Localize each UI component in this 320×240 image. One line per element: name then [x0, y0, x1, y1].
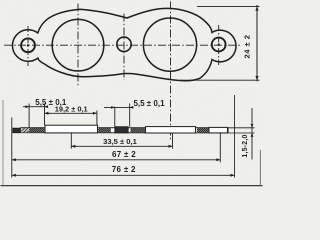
vertical center line, left mounting hole: [27, 26, 29, 66]
dimension 5,5±0,1 left: dimension line: [23, 106, 47, 108]
scan noise overlay: [0, 0, 1, 1]
dimension 5,5±0,1 left: extension lines: [28, 104, 30, 128]
dimension 33,5±0,1: extension lines: [70, 133, 72, 148]
dimension 1,5-2,0: extension lines from bar end: [228, 127, 255, 129]
right large hole: [143, 18, 196, 71]
dimension 24±2 bottom extension line: [180, 79, 260, 81]
section bar body: [13, 128, 228, 133]
left end pad (hatched): [13, 128, 21, 132]
dimension 19,2±0,1: dimension line: [45, 112, 97, 114]
figure frame bottom border: [1, 185, 263, 187]
vertical center line, right mounting hole: [218, 25, 220, 65]
right end pad: [209, 127, 228, 132]
hatch segment left (5.5 zone): [29, 128, 44, 133]
dimension 67±2: dimension line: [12, 159, 221, 161]
dimension 5,5±0,1 right: dimension line: [104, 106, 134, 108]
dimension 76±2: dimension line: [12, 174, 235, 176]
figure frame left border: [2, 100, 4, 186]
dimension 33,5±0,1: dimension line: [71, 145, 172, 147]
raised pad right section: [146, 127, 196, 133]
hatch segment right: [197, 128, 209, 133]
dimension 76±2: right extension line (from flange right extreme): [234, 95, 236, 178]
vertical center line, center hole: [123, 14, 125, 81]
center small hole: [117, 37, 131, 51]
dimension 19,2±0,1: extension line right: [96, 111, 98, 126]
left mounting hole center dot: [27, 44, 29, 46]
hatch segment far-left light: [21, 128, 29, 133]
right mounting hole center dot: [218, 43, 220, 45]
dimension 24±2 dimension line: [256, 5, 258, 81]
right mounting hole: [212, 38, 226, 52]
dimension 24±2 top extension line: [197, 5, 260, 7]
dimension 5,5±0,1 right: extension lines: [114, 107, 116, 127]
vertical center line, left large hole: [77, 4, 79, 87]
left large hole: [52, 19, 104, 71]
hatch segment mid-right: [131, 128, 146, 133]
dimension 67±2: extension lines: [219, 133, 221, 162]
raised pad 19.2 section: [45, 125, 98, 133]
dimension 76±2: left extension line (from flange left extreme): [11, 118, 13, 178]
figure frame right border bottom stub: [259, 150, 261, 186]
center pad (hatched): [115, 127, 128, 133]
horizontal center line: [4, 44, 242, 46]
top view flange outline: [12, 8, 236, 80]
left mounting hole: [21, 38, 35, 52]
hatch segment mid-left: [98, 128, 111, 133]
dimension 1,5-2,0: vertical dimension line: [251, 108, 253, 160]
vertical center line, right large hole (extends through section): [170, 2, 172, 142]
